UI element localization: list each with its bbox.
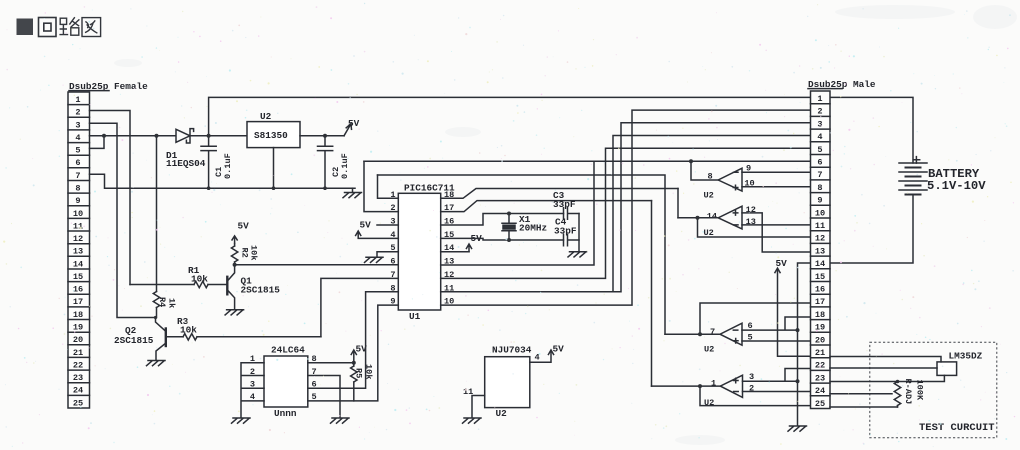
wire U2 output to 5V [300,135,344,137]
svg-text:33pF: 33pF [553,199,576,210]
junction pin5-pin4 [102,134,106,138]
svg-text:12: 12 [73,234,83,244]
wire male pin21 to LM35 vcc [830,357,941,362]
wire Q1 collector to PIC pin6 [235,264,399,266]
svg-text:5V: 5V [348,118,360,129]
svg-text:14: 14 [815,259,825,269]
svg-text:5V: 5V [360,220,372,231]
ground symbol U1 pin5 [365,257,384,262]
wire ground net from male pin14 [798,263,811,426]
svg-text:5V: 5V [776,258,788,269]
resistor R2 10k pullup [231,244,237,265]
svg-text:4: 4 [817,132,822,142]
wire male pin4 riser [613,136,811,292]
svg-text:Unnn: Unnn [274,408,297,419]
op-amp U2c triangle [720,323,742,345]
ground symbol battery minus net [788,426,807,431]
junction Q2 collector node [154,316,157,319]
connector J2 pin numbers 1-25 [815,94,825,409]
wire U1 pin2 up-left [364,161,398,211]
resistor R-ADJ 100K [894,382,900,408]
svg-text:15: 15 [73,272,83,282]
wire U1 pin4 MCLR [358,232,398,239]
svg-text:NJU7034: NJU7034 [492,345,532,356]
svg-text:R2: R2 [240,248,250,258]
svg-text:0.1uF: 0.1uF [340,153,350,179]
ground symbol NJU7034 [463,418,482,423]
svg-text:9: 9 [746,164,751,174]
svg-text:5: 5 [75,146,80,156]
junction X1 bottom [507,238,511,242]
ground symbol 24LC64 left [232,418,251,423]
wire NJU7034 VCC to 5V [530,351,551,363]
wire female pin3 down to Q2 collector [90,123,156,317]
svg-text:11: 11 [815,221,825,231]
crystal X1 [502,214,516,241]
wire male pin23 to LM35 gnd and R-ADJ [830,375,944,381]
svg-text:U2: U2 [496,408,508,419]
svg-text:14: 14 [73,259,83,269]
svg-text:12: 12 [815,234,825,244]
svg-text:21: 21 [815,348,825,358]
op-amp U2b triangle [718,206,742,229]
svg-text:17: 17 [73,297,83,307]
svg-text:2SC1815: 2SC1815 [241,285,281,296]
connector J1 pin numbers 1-25 [73,95,83,408]
svg-text:8: 8 [75,184,80,194]
label C1 0.1uF rotated [214,153,233,179]
label C2 0.1uF rotated [331,153,350,179]
svg-text:6: 6 [390,256,395,266]
junction U2 rail [272,186,276,190]
svg-text:U2: U2 [704,191,714,201]
wire U1 pin12 to male pin5 [441,148,811,278]
wire battery plus from male pin1 [830,97,913,163]
eeprom 24LC64 box [264,356,308,407]
resistor R1 10k [130,281,226,287]
svg-text:5V: 5V [553,344,565,355]
wire R3 to PIC pin7 [321,278,398,336]
5V arrow at U1 pin14 [466,244,471,252]
wire PIC pin18 riser to opamp2 out [677,189,679,218]
wire U2d input3 to ground net and male pin22 [743,369,811,382]
svg-text:U2: U2 [704,398,714,408]
wire U1 pin1 up-left [378,175,399,198]
svg-text:U2: U2 [260,111,272,122]
test circuit dotted box [870,342,997,437]
svg-text:23: 23 [73,373,83,383]
resistor R3 10k [166,334,321,340]
wire rail ground drop [352,188,354,192]
svg-text:11: 11 [73,221,83,231]
wire U2c input5 to male pin20 [742,340,811,342]
svg-text:16: 16 [815,285,825,295]
wire U2a output to male pin6 row [691,161,718,180]
5V arrow at R2 [232,236,237,244]
svg-text:3: 3 [817,119,822,129]
junction U2c output [698,332,702,336]
wire U2b input13 to male pin11 [742,224,811,226]
svg-text:1: 1 [250,354,255,364]
24LC64 left pin numbers [250,354,255,402]
ground symbol WP [331,418,350,423]
wire battery minus to male pin14 [830,195,913,264]
svg-text:13: 13 [746,217,756,227]
svg-text:10: 10 [815,208,825,218]
svg-text:25: 25 [73,398,83,408]
svg-text:20: 20 [73,335,83,345]
svg-text:7: 7 [817,170,822,180]
wire net pin1 top rail to male pin1 [209,97,811,135]
svg-text:3: 3 [250,380,255,390]
wire net PIC pin1 to opamp3 out [378,175,666,334]
svg-text:10: 10 [73,209,83,219]
connector J1 Dsub25p Female body [68,92,90,408]
wire U2b input12 to male pin13 [742,213,811,252]
wire 24LC64 pin5 SDA to U1 pin9 [308,305,399,401]
svg-text:1: 1 [817,94,822,104]
svg-text:3: 3 [75,120,80,130]
svg-text:17: 17 [815,297,825,307]
svg-text:LM35DZ: LM35DZ [949,351,983,362]
wire male pin25 to R-ADJ bottom [830,406,898,408]
svg-text:1k: 1k [167,298,177,308]
svg-text:4: 4 [250,392,255,402]
wire NJU7034 pin11 to ground [472,396,485,418]
svg-text:24: 24 [73,386,83,396]
diode D1 11EQS04 [176,129,194,143]
junction R5 top [352,361,356,365]
ground symbol power rail [343,193,362,198]
U1 left pin numbers [390,190,395,307]
wire U1 pin15 OSC2 [441,238,564,240]
resistor R4 1k [153,136,159,318]
U1 right pin numbers [444,190,454,307]
svg-text:20: 20 [815,335,825,345]
wire 24LC64 pin7 WP to ground [308,376,340,418]
5V arrow at regulator output [344,124,352,136]
5V arrow at U1 pin4 [356,231,361,236]
svg-text:21: 21 [73,348,83,358]
wire U1 pin10 to male pin3 [441,110,811,305]
wire U1 pin18 diagonal [441,189,678,199]
svg-text:16: 16 [73,285,83,295]
junction Q1 collector node [233,263,237,267]
svg-text:1: 1 [75,95,80,105]
wire U1 pin5 VSS [377,252,398,256]
svg-text:8: 8 [817,183,822,193]
svg-text:9: 9 [817,196,822,206]
wire U1 pin14 VDD [441,251,469,253]
wire U1 pin11 to male pin4 [441,123,811,292]
svg-text:U1: U1 [409,311,421,322]
sensor LM35DZ body [937,362,957,376]
svg-text:13: 13 [815,246,825,256]
svg-text:19: 19 [73,323,83,333]
svg-text:10k: 10k [191,274,208,285]
svg-text:2SC1815: 2SC1815 [114,335,154,346]
svg-text:15: 15 [815,272,825,282]
svg-text:25: 25 [815,399,825,409]
junction C1 rail [207,186,211,190]
svg-text:24: 24 [815,386,825,396]
svg-text:2: 2 [817,107,822,117]
junction U2d output [698,384,702,388]
capacitor C3 [564,208,580,220]
wire female pin5 stub up to pin4 rail [90,136,105,149]
regulator U2 S81350 box [247,122,300,148]
svg-text:10k: 10k [180,325,197,336]
junction C2 rail [323,186,327,190]
svg-text:6: 6 [817,158,822,168]
svg-text:100K: 100K [915,380,925,401]
battery plus sign [913,157,920,164]
24LC64 right pin numbers [312,354,317,402]
svg-text:4: 4 [75,133,80,143]
svg-text:S81350: S81350 [254,130,288,141]
wire U1 pin13 to male pin6 riser [441,161,594,265]
wire net male pin7 row [742,171,811,173]
svg-text:20MHz: 20MHz [519,223,547,234]
junction C2 top [323,134,327,138]
svg-text:U2: U2 [704,345,714,355]
svg-text:33pF: 33pF [554,225,577,236]
svg-text:10k: 10k [249,245,259,260]
5V arrow NJU7034 [548,350,553,355]
svg-text:13: 13 [73,247,83,257]
svg-text:2: 2 [75,108,80,118]
svg-text:TEST CURCUIT: TEST CURCUIT [919,422,995,434]
opamp package NJU7034 box [485,357,530,408]
svg-text:0.1uF: 0.1uF [223,153,233,179]
op-amp U2d triangle [720,375,742,397]
wire net PIC pin2 / opamp1 out / male pin6 [364,160,811,162]
wire U2b output branch [678,218,811,237]
wire 24LC64 pins1-4 to ground [241,363,264,418]
svg-text:11: 11 [463,387,473,397]
svg-text:5V: 5V [238,221,250,232]
wire net male pin8 row [742,186,811,188]
wire U2c input6 to ground net and male pin18 [742,317,811,330]
svg-text:24LC64: 24LC64 [271,345,305,356]
svg-text:1: 1 [711,379,716,389]
svg-text:7: 7 [75,171,80,181]
wire male pin22 to LM35 out [830,367,937,369]
junction C1 top [207,134,211,138]
wire U1 pin16 OSC1 [441,214,564,226]
transistor Q2 2SC1815 [156,318,166,361]
title kanji 路 [59,17,79,35]
junction R-ADJ top [896,380,900,384]
junction X1 top [507,212,511,216]
svg-text:6: 6 [75,158,80,168]
wire U2d output branch to male pin25 [652,386,811,406]
ground symbol crystal [568,252,587,257]
svg-text:7: 7 [390,270,395,280]
svg-text:18: 18 [815,310,825,320]
capacitor C2 [318,136,333,188]
junction U2d input3 ground net [796,379,800,383]
wire U2c output to riser and male pin17 [665,303,811,334]
wire PIC pin17 riser to opamp4 out [651,201,653,387]
svg-text:18: 18 [73,310,83,320]
resistor R5 10k [351,363,357,401]
svg-text:R4: R4 [157,297,167,307]
connector J2 Dsub25p Male body [811,91,831,409]
svg-text:5: 5 [817,145,822,155]
wire 24LC64 pin8 VCC [308,351,354,363]
wire U1 pin3 stub [377,224,398,226]
junction U2c input6 ground net [796,328,800,332]
junction U2b output [696,216,700,220]
wire male pin24 to R-ADJ tap [830,393,892,395]
svg-text:5.1V-10V: 5.1V-10V [927,179,986,193]
wire female pin4 main rail [90,135,176,137]
wire U2 ground pin [273,148,275,189]
capacitor C4 [564,234,580,246]
wire 5V to male pin21 [778,269,811,356]
wire 24LC64 pin6 SCL to U1 pin8 [308,292,399,388]
wire U1 pin17 diagonal [441,201,652,212]
svg-text:22: 22 [73,360,83,370]
wire female pin2 down to R1 [90,111,131,285]
capacitor C1 [201,136,216,188]
title kanji 回 [39,18,57,37]
svg-text:12: 12 [746,205,756,215]
junction R4 branch [155,134,159,138]
junction U2a output [689,159,693,163]
svg-text:R5: R5 [354,368,364,378]
ground symbol Q1 emitter [225,310,244,315]
svg-text:R-ADJ: R-ADJ [903,379,913,405]
svg-text:10: 10 [744,179,754,189]
wire U2d input2 to male pin24 [743,391,811,393]
svg-text:7: 7 [710,327,715,337]
op-amp U2a triangle [718,168,742,191]
wire crystal ground vertical [578,214,580,252]
svg-text:2: 2 [250,367,255,377]
battery BT1 plates [899,163,927,195]
wire diode to U2 input [191,135,248,137]
5V arrow male side [775,268,780,273]
transistor Q1 2SC1815 [227,265,234,310]
title bullet square [17,19,34,36]
ground symbol Q2 emitter [147,361,166,366]
title kanji 図 [82,18,101,37]
svg-text:14: 14 [707,211,717,221]
svg-text:9: 9 [75,196,80,206]
svg-text:11EQS04: 11EQS04 [166,158,206,169]
svg-text:23: 23 [815,373,825,383]
microcontroller U1 PIC16C711 box [398,193,440,310]
5V arrow at R5 [351,350,356,355]
wire female pin7 to ground rail [90,174,356,188]
